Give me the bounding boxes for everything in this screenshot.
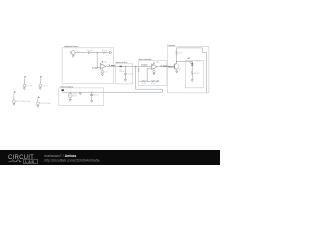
resistor R4 vertical — [176, 51, 178, 55]
wire main signal A to C — [106, 65, 152, 67]
svg-text:1kHz: 1kHz — [73, 96, 77, 98]
svg-text:V_mic: V_mic — [92, 67, 98, 69]
ground under C3 — [91, 101, 93, 103]
junction C3 — [91, 92, 92, 93]
svg-text:1N4148: 1N4148 — [119, 71, 124, 73]
svg-text:R5 220: R5 220 — [194, 73, 199, 75]
box C divisor Comparador — [139, 61, 167, 86]
wire mic to C1 — [75, 52, 88, 54]
wire base — [167, 66, 174, 68]
op-amp OA1 — [100, 63, 106, 69]
svg-text:V4 3.3V 60Hz: V4 3.3V 60Hz — [40, 103, 51, 105]
svg-text:divisor Comparador: divisor Comparador — [139, 59, 152, 61]
divider end arrow flag — [155, 80, 157, 82]
wire node junction to divider — [135, 66, 136, 67]
wire C1 to R1 — [90, 52, 102, 54]
svg-text:V3 2V 1kHz 0 Deg: V3 2V 1kHz 0 Deg — [16, 101, 30, 103]
svg-text:Transistor: Transistor — [167, 44, 175, 47]
wire rail A — [136, 88, 163, 90]
svg-text:V_amp: V_amp — [109, 65, 116, 67]
op-amp OA2 V- stub and source — [153, 68, 155, 70]
wire VCC rail staircase — [177, 48, 207, 93]
wire R4 to collector node — [176, 55, 178, 61]
resistor R3 — [151, 80, 155, 82]
wire inverting input to divider tap — [147, 68, 152, 81]
voltage source V2 — [39, 76, 43, 90]
ground under MIC1 — [72, 55, 74, 58]
box B detector de Pico — [116, 64, 133, 84]
svg-text:D2 led: D2 led — [196, 61, 201, 63]
LED D2 — [191, 63, 193, 65]
junction LED entry — [192, 61, 193, 62]
source V6 sine — [68, 93, 72, 97]
wire LED to R5 — [191, 66, 193, 71]
svg-text:C3 10n: C3 10n — [94, 95, 99, 97]
svg-text:sal1: sal1 — [106, 54, 109, 56]
svg-text:Vbase: Vbase — [168, 66, 174, 68]
junction divider tap — [147, 81, 148, 82]
wire emitter to ground — [176, 70, 178, 72]
resistor R5 vertical — [191, 71, 193, 75]
svg-text:C1 1uF: C1 1uF — [87, 50, 92, 52]
svg-text:LAB: LAB — [25, 160, 35, 164]
wire drop to op-amp — [97, 53, 100, 68]
microphone MIC1 — [70, 51, 75, 55]
wire collector to LED box — [177, 61, 193, 63]
svg-text:R1 10k: R1 10k — [102, 50, 107, 52]
svg-text:C2 100n: C2 100n — [127, 73, 133, 75]
transistor Q1 — [173, 64, 179, 70]
wire R5 to ground — [191, 75, 193, 79]
op-amp OA1 V- stub — [101, 68, 103, 70]
node flag out — [110, 51, 112, 54]
box D Transistor — [167, 47, 209, 93]
node junction — [97, 52, 98, 53]
svg-text:marianacr7 / Ambas: marianacr7 / Ambas — [44, 154, 76, 158]
box E LED — [185, 60, 203, 87]
op-amp OA1 V+ arrow — [101, 62, 103, 63]
voltage source V3 — [13, 91, 17, 105]
resistor R2 — [142, 80, 146, 82]
wire from rail to R4 — [176, 48, 178, 51]
svg-text:R3 10k: R3 10k — [151, 83, 156, 85]
wire rail B — [62, 91, 162, 93]
ground under Q1 — [176, 71, 178, 73]
svg-text:D1: D1 — [119, 69, 121, 71]
diode D1 — [120, 65, 122, 67]
svg-text:Onda Seno (Mano): Onda Seno (Mano) — [60, 86, 73, 88]
svg-text:R4 1k: R4 1k — [178, 52, 182, 54]
svg-text:http://circuitlab.com/c/53nb94: http://circuitlab.com/c/53nb94nhba5e — [44, 158, 100, 162]
junction at C2 — [125, 66, 126, 67]
capacitor C2 — [124, 66, 126, 73]
op-amp OA2 — [152, 64, 158, 70]
ground under source V6 — [69, 97, 71, 101]
capacitor C3 — [91, 92, 93, 94]
ground on wire in box F — [79, 92, 81, 95]
divider wire middle — [145, 80, 151, 82]
resistor R1 — [102, 52, 107, 54]
capacitor C1 — [89, 51, 90, 54]
voltage source V4 — [36, 97, 40, 108]
junction source top — [70, 92, 71, 93]
divider wire — [139, 80, 142, 82]
footer bar — [0, 150, 220, 165]
wire vertical V2 drop — [135, 66, 137, 89]
svg-text:R2 10k: R2 10k — [141, 83, 146, 85]
ground under bias source — [101, 73, 103, 76]
svg-text:Q1: Q1 — [179, 68, 181, 70]
svg-text:npn: npn — [179, 70, 182, 72]
voltage source V1 — [23, 76, 27, 90]
box F Onda Seno — [59, 88, 104, 106]
op-amp OA2 output wire — [157, 66, 167, 68]
bias source V5 — [101, 70, 104, 73]
svg-text:V_pico: V_pico — [141, 65, 148, 67]
ground in box E — [191, 80, 193, 82]
wire connector — [162, 89, 164, 92]
box A amplifier stage — [62, 48, 114, 84]
wire R1 to flag — [107, 52, 110, 54]
svg-text:MIC1: MIC1 — [76, 51, 80, 53]
op-amp OA2 V+ arrow — [153, 62, 155, 64]
ground in box B — [124, 79, 126, 81]
node flag in box F — [61, 91, 63, 92]
